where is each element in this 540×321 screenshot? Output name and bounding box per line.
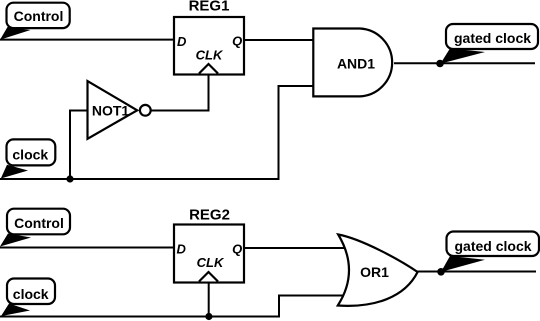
svg-text:clock: clock	[13, 286, 49, 302]
svg-text:Control: Control	[14, 8, 64, 24]
svg-text:D: D	[177, 242, 187, 257]
svg-text:clock: clock	[12, 146, 48, 162]
svg-text:Q: Q	[232, 241, 242, 256]
svg-text:NOT1: NOT1	[92, 103, 130, 119]
svg-text:REG1: REG1	[189, 0, 230, 14]
svg-text:D: D	[177, 34, 187, 49]
svg-text:Control: Control	[14, 215, 64, 231]
svg-text:CLK: CLK	[197, 255, 225, 270]
svg-text:gated clock: gated clock	[454, 238, 531, 254]
svg-text:OR1: OR1	[360, 264, 389, 280]
svg-text:REG2: REG2	[189, 207, 230, 224]
svg-text:gated clock: gated clock	[454, 30, 531, 46]
svg-text:CLK: CLK	[196, 48, 224, 63]
svg-text:AND1: AND1	[337, 56, 375, 72]
svg-text:Q: Q	[232, 34, 242, 49]
